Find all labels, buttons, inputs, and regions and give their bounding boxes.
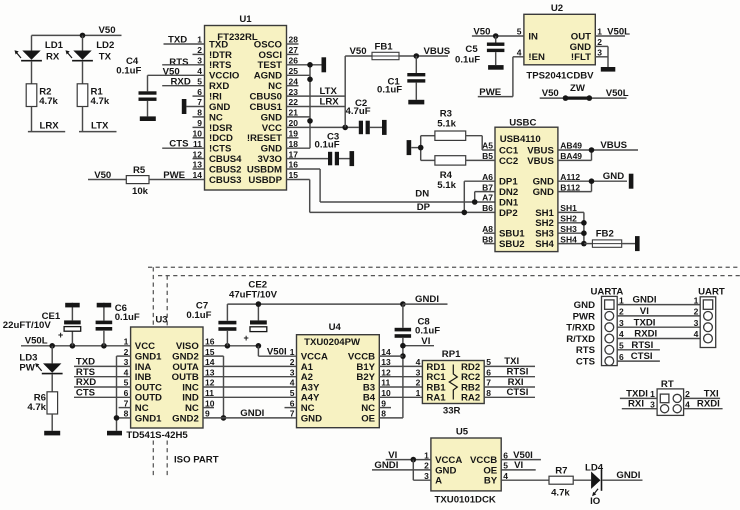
svg-text:5: 5	[503, 461, 508, 471]
junction	[581, 241, 587, 247]
svg-text:!RTS: !RTS	[209, 60, 232, 71]
svg-text:CBUS0: CBUS0	[249, 92, 282, 103]
wire B3 to RP1	[379, 386, 422, 388]
node V50I (U5 VCCB)	[501, 459, 541, 461]
LED LD1	[22, 51, 40, 60]
svg-text:10: 10	[193, 129, 203, 139]
node TXI (RP1 RD2)	[484, 365, 535, 367]
svg-text:B112: B112	[560, 182, 580, 192]
svg-text:RT: RT	[661, 379, 674, 390]
svg-text:3V3O: 3V3O	[257, 154, 282, 165]
svg-text:1: 1	[416, 388, 421, 398]
svg-text:USB4110: USB4110	[500, 134, 541, 145]
svg-text:4: 4	[517, 48, 522, 58]
svg-text:LRX: LRX	[320, 96, 340, 107]
wire	[369, 126, 382, 128]
svg-text:USBDM: USBDM	[247, 164, 282, 175]
svg-text:PWE: PWE	[163, 170, 185, 181]
svg-text:SH3: SH3	[560, 224, 577, 234]
UART pin 3 pad	[704, 323, 713, 332]
svg-text:1: 1	[290, 347, 295, 357]
RP1 resistor zigzag symbol	[449, 365, 457, 400]
svg-text:3: 3	[124, 357, 129, 367]
RT pin 4 pad	[673, 405, 681, 413]
svg-text:21: 21	[289, 108, 299, 118]
svg-text:12: 12	[205, 378, 215, 388]
svg-text:2: 2	[124, 347, 129, 357]
wire U3 GND2 bus	[203, 355, 224, 357]
svg-text:VBUS: VBUS	[527, 145, 554, 156]
svg-text:20: 20	[289, 118, 299, 128]
svg-text:VBUS: VBUS	[424, 46, 451, 57]
svg-text:IO: IO	[590, 496, 601, 507]
svg-text:6: 6	[486, 367, 491, 377]
wire R3/R4 vertical	[420, 136, 422, 161]
junction	[581, 230, 587, 236]
svg-text:!FLT: !FLT	[571, 52, 591, 63]
svg-text:7: 7	[486, 378, 491, 388]
svg-text:5: 5	[517, 27, 522, 37]
svg-text:!RI: !RI	[209, 92, 222, 103]
node GND (USBC right)	[558, 180, 627, 182]
svg-text:4.7k: 4.7k	[551, 487, 570, 498]
svg-text:GND: GND	[533, 187, 554, 198]
svg-text:TXDI: TXDI	[626, 388, 648, 399]
svg-text:13: 13	[205, 367, 215, 377]
svg-text:R7: R7	[555, 465, 567, 476]
ground (below C1)	[408, 100, 424, 105]
svg-text:SH3: SH3	[535, 229, 554, 240]
wire pin27 stub	[287, 53, 299, 55]
svg-text:VI: VI	[421, 336, 430, 347]
svg-text:2: 2	[597, 37, 602, 47]
wire	[495, 52, 497, 65]
ground (above C6)	[97, 303, 112, 308]
wire pin8 stub	[193, 116, 205, 118]
svg-text:22uFT/10V: 22uFT/10V	[3, 320, 52, 331]
wire OE to VI	[379, 417, 403, 419]
wire DP1 link	[464, 180, 495, 182]
wire	[31, 61, 33, 84]
svg-text:9: 9	[381, 398, 386, 408]
capacitor C1 0.1uF	[407, 73, 425, 76]
svg-text:2: 2	[416, 378, 421, 388]
svg-text:LTX: LTX	[91, 121, 109, 132]
svg-text:5: 5	[197, 76, 202, 86]
svg-text:13: 13	[193, 160, 203, 170]
buffer U5 TXU0101DCK box	[431, 438, 501, 491]
svg-text:5: 5	[124, 378, 129, 388]
node TXI (RT pin 2)	[684, 397, 721, 399]
junction	[418, 145, 424, 151]
svg-text:0.1uF: 0.1uF	[115, 312, 140, 323]
node RXDI (UARTA 4 to UART 4)	[617, 338, 700, 340]
node TXDI (RT pin 1)	[620, 397, 657, 399]
svg-text:!EN: !EN	[528, 52, 545, 63]
ground (below C4)	[140, 116, 156, 121]
svg-text:USBDP: USBDP	[248, 175, 282, 186]
junction	[493, 33, 499, 39]
svg-text:OE: OE	[361, 413, 375, 424]
svg-text:8: 8	[197, 108, 202, 118]
svg-text:14: 14	[205, 357, 215, 367]
wire GND pin21 to bus	[287, 116, 311, 118]
svg-text:19: 19	[289, 129, 299, 139]
svg-text:VCCIO: VCCIO	[209, 71, 240, 82]
svg-text:SBU1: SBU1	[499, 229, 525, 240]
svg-text:33R: 33R	[443, 406, 461, 417]
svg-text:0.1uF: 0.1uF	[377, 85, 402, 96]
wire	[226, 304, 228, 321]
node GNDI (UARTA 1 to UART 1)	[617, 304, 700, 306]
wire U3 pin10 stub	[203, 407, 214, 409]
svg-text:V50I: V50I	[267, 346, 287, 357]
wire	[147, 101, 149, 117]
junction	[307, 77, 313, 83]
wire GNDI rail	[227, 303, 403, 305]
svg-text:4.7uF: 4.7uF	[346, 106, 371, 117]
wire	[82, 35, 84, 50]
svg-text:7: 7	[290, 409, 295, 419]
svg-text:IN: IN	[528, 31, 538, 42]
wire VISO row	[203, 345, 258, 347]
wire SBU2 stub	[484, 243, 495, 245]
svg-text:SH1: SH1	[560, 203, 577, 213]
node RXI (RT pin 3)	[622, 408, 657, 410]
svg-text:1: 1	[694, 295, 699, 305]
UART pin 1 pad	[703, 300, 712, 309]
svg-text:A8: A8	[482, 224, 493, 234]
wire pin19 stub	[287, 137, 299, 139]
svg-text:24: 24	[289, 76, 299, 86]
svg-text:!DTR: !DTR	[209, 50, 232, 61]
wire U5 BY out	[501, 479, 549, 481]
node CTSI (UARTA 6)	[617, 360, 660, 362]
svg-text:V50L: V50L	[606, 88, 629, 99]
junction	[70, 343, 76, 349]
wire C4 drop	[147, 75, 149, 91]
wire	[71, 303, 73, 321]
svg-text:18: 18	[289, 139, 299, 149]
wire dashed isolation boundary inner	[158, 275, 740, 277]
svg-text:6: 6	[503, 450, 508, 460]
svg-text:OSCO: OSCO	[254, 39, 283, 50]
junction	[400, 343, 406, 349]
node GNDI (after LD4)	[602, 479, 642, 481]
wire	[495, 36, 497, 43]
svg-text:GND: GND	[603, 171, 624, 182]
svg-text:DP2: DP2	[499, 208, 518, 219]
junction	[581, 220, 587, 226]
wire	[415, 56, 417, 73]
resistor network RP1 33R box	[422, 361, 484, 404]
svg-text:13: 13	[381, 357, 391, 367]
svg-text:17: 17	[289, 149, 299, 159]
svg-text:23: 23	[289, 87, 299, 97]
UART pin 2 pad	[704, 312, 713, 321]
svg-text:GND: GND	[570, 42, 591, 53]
node VBUS (USBC right)	[558, 149, 638, 151]
wire B4 to RP1	[379, 396, 422, 398]
svg-text:2: 2	[694, 307, 699, 317]
svg-text:UART: UART	[698, 287, 725, 298]
wire	[51, 414, 53, 431]
svg-text:LTX: LTX	[320, 86, 338, 97]
svg-text:CBUS2: CBUS2	[209, 164, 242, 175]
svg-text:ZW: ZW	[570, 83, 586, 94]
svg-text:1: 1	[124, 337, 129, 347]
ground (below R6)	[44, 431, 60, 436]
svg-text:15: 15	[205, 347, 215, 357]
node VI (net label)	[403, 345, 434, 347]
svg-text:SH4: SH4	[535, 239, 554, 250]
wire	[402, 304, 404, 328]
svg-text:SH2: SH2	[560, 214, 577, 224]
svg-text:A5: A5	[482, 141, 493, 151]
svg-text:0.1uF: 0.1uF	[186, 310, 211, 321]
svg-text:AGND: AGND	[254, 71, 282, 82]
svg-text:14: 14	[381, 347, 391, 357]
wire	[103, 303, 105, 321]
svg-text:6: 6	[290, 398, 295, 408]
svg-text:7: 7	[124, 398, 129, 408]
wire OUTA to U4 A1	[203, 365, 297, 367]
node VI (U5 OE)	[501, 469, 536, 471]
svg-text:USBC: USBC	[509, 117, 536, 128]
wire	[82, 107, 84, 132]
svg-text:VI: VI	[514, 460, 523, 471]
wire	[31, 35, 33, 50]
svg-text:TPS2041CDBV: TPS2041CDBV	[526, 71, 594, 82]
svg-text:V50L: V50L	[25, 336, 48, 347]
svg-text:OUT: OUT	[571, 31, 591, 42]
wire INC to U4 A3Y	[203, 386, 297, 388]
wire	[257, 304, 259, 320]
wire U3 pin7 stub	[119, 407, 131, 409]
junction	[307, 62, 313, 68]
junction	[101, 343, 107, 349]
wire SBU1 stub	[484, 232, 495, 234]
wire VI to A	[412, 460, 414, 481]
svg-text:14: 14	[193, 170, 203, 180]
svg-text:A7: A7	[482, 193, 493, 203]
svg-text:TXD: TXD	[209, 39, 228, 50]
op-amp U1 FT232RL box	[205, 26, 287, 191]
capacitor C2 4.7uF	[359, 121, 363, 135]
ground (after FB2)	[635, 236, 640, 251]
junction	[307, 118, 313, 124]
junction	[256, 301, 262, 307]
svg-text:SH4: SH4	[560, 234, 577, 244]
svg-text:TXDI: TXDI	[634, 317, 656, 328]
svg-text:27: 27	[289, 45, 299, 55]
svg-text:8: 8	[381, 409, 386, 419]
svg-text:2: 2	[619, 307, 624, 317]
svg-text:RXD: RXD	[209, 81, 229, 92]
svg-text:BA49: BA49	[560, 151, 582, 161]
svg-text:3: 3	[197, 56, 202, 66]
junction	[411, 457, 417, 463]
junction	[342, 125, 348, 131]
wire B1Y to RP1	[379, 365, 422, 367]
wire U2 GND pin2	[595, 45, 608, 47]
UARTA pin 2 pad	[605, 312, 614, 321]
svg-text:0.1uF: 0.1uF	[415, 326, 440, 337]
regulator U2 TPS2041CDBV box	[524, 14, 595, 65]
wire AGND pin25	[287, 74, 311, 76]
wire	[339, 158, 350, 160]
svg-text:LRX: LRX	[40, 121, 60, 132]
wire	[186, 106, 204, 108]
node CTSI (RP1 RA2)	[484, 396, 535, 398]
svg-text:DP1: DP1	[499, 177, 518, 188]
svg-text:11: 11	[381, 378, 390, 388]
svg-text:12: 12	[193, 149, 203, 159]
wire USBDP pin15 to DP	[287, 179, 310, 181]
junction	[400, 301, 406, 307]
svg-text:LD2: LD2	[96, 40, 114, 51]
svg-text:RTS: RTS	[576, 345, 596, 356]
svg-text:+: +	[58, 330, 63, 340]
svg-text:B5: B5	[482, 151, 493, 161]
svg-text:U5: U5	[456, 426, 469, 437]
svg-text:RA2: RA2	[461, 393, 480, 404]
wire pin6 stub	[193, 95, 205, 97]
svg-text:26: 26	[289, 56, 299, 66]
svg-text:10: 10	[381, 388, 391, 398]
svg-text:6: 6	[619, 352, 624, 362]
svg-text:B6: B6	[482, 203, 493, 213]
svg-text:U3: U3	[155, 315, 167, 326]
svg-text:16: 16	[205, 337, 215, 347]
svg-text:11: 11	[193, 139, 202, 149]
svg-text:1: 1	[197, 35, 202, 45]
node RXI (RP1 RB2)	[484, 386, 535, 388]
svg-text:SH2: SH2	[535, 218, 554, 229]
gnd bus vertical	[309, 65, 311, 148]
svg-text:VBUS: VBUS	[527, 156, 554, 167]
node GNDI (rail label)	[403, 303, 448, 305]
svg-text:V50L: V50L	[607, 26, 630, 37]
svg-text:28: 28	[289, 35, 299, 45]
wire pin10 stub	[193, 137, 205, 139]
svg-text:AB49: AB49	[560, 141, 582, 151]
svg-text:0.1uF: 0.1uF	[315, 139, 340, 150]
wire OUTB to U4 A2	[203, 376, 297, 378]
svg-text:TXU0101DCK: TXU0101DCK	[435, 494, 496, 505]
ground (after C3)	[350, 151, 355, 166]
svg-text:4: 4	[290, 378, 295, 388]
svg-text:TD541S-42H5: TD541S-42H5	[126, 430, 188, 441]
junction	[462, 210, 468, 216]
capacitor C4	[139, 91, 157, 94]
svg-text:A6: A6	[482, 172, 493, 182]
wire pin2 stub	[193, 53, 205, 55]
wire	[51, 374, 53, 392]
junction	[49, 343, 55, 349]
junction	[400, 353, 406, 359]
wire U2 !FLT stub	[595, 56, 608, 58]
svg-text:2: 2	[424, 461, 429, 471]
svg-text:0.1uF: 0.1uF	[116, 66, 141, 77]
svg-text:22: 22	[289, 97, 299, 107]
svg-text:7: 7	[197, 97, 202, 107]
wire pin12 stub	[193, 158, 205, 160]
wire VCCB to VI	[379, 355, 403, 357]
svg-text:!DSR: !DSR	[209, 123, 233, 134]
ferrite bead FB2	[584, 243, 593, 245]
svg-text:R5: R5	[133, 165, 146, 176]
svg-text:GND: GND	[261, 112, 282, 123]
svg-text:GND1: GND1	[135, 413, 162, 424]
svg-text:U4: U4	[329, 322, 342, 333]
wire SH bus	[558, 211, 584, 213]
svg-text:5: 5	[486, 357, 491, 367]
svg-text:VCC: VCC	[262, 123, 282, 134]
svg-text:10k: 10k	[132, 186, 149, 197]
RT pin 1 pad	[660, 394, 669, 403]
svg-text:8: 8	[486, 388, 491, 398]
UARTA pin 3 pad	[605, 323, 614, 332]
svg-text:NC: NC	[268, 81, 282, 92]
wire VCC pin20 row	[287, 126, 359, 128]
RT pin 3 pad	[661, 405, 669, 413]
svg-text:VI: VI	[640, 306, 649, 317]
svg-text:RX: RX	[46, 51, 60, 62]
svg-text:1: 1	[424, 450, 429, 460]
svg-text:2: 2	[290, 357, 295, 367]
svg-text:RA1: RA1	[426, 393, 446, 404]
ground (R3/R4)	[407, 140, 412, 155]
svg-text:A: A	[435, 476, 442, 487]
svg-text:!DCD: !DCD	[209, 133, 233, 144]
svg-text:GND2: GND2	[172, 413, 199, 424]
svg-text:CTS: CTS	[576, 357, 596, 368]
svg-text:PWR: PWR	[573, 311, 595, 322]
svg-text:U2: U2	[551, 3, 563, 14]
wire 3V3O pin17 row	[287, 158, 329, 160]
svg-text:4.7k: 4.7k	[27, 402, 46, 413]
svg-text:LD1: LD1	[45, 40, 64, 51]
svg-text:4.7k: 4.7k	[39, 96, 58, 107]
svg-text:3: 3	[619, 318, 624, 328]
svg-text:DN1: DN1	[499, 197, 519, 208]
svg-text:CC1: CC1	[499, 145, 519, 156]
svg-text:GNDI: GNDI	[240, 408, 264, 419]
ground (U1 pin 7)	[182, 99, 187, 114]
connector USBC USB4110 box	[495, 127, 558, 251]
resistor R6 4.7k	[47, 392, 58, 414]
resistor R1	[77, 84, 88, 107]
svg-text:CTSI: CTSI	[631, 351, 653, 362]
svg-text:SBU2: SBU2	[499, 239, 525, 250]
svg-text:FB1: FB1	[375, 42, 394, 53]
node V50L (U2 OUT)	[595, 35, 625, 37]
svg-text:GND: GND	[261, 144, 282, 155]
junction	[114, 415, 120, 421]
junction	[225, 343, 231, 349]
wire dashed isolation boundary outer	[148, 266, 740, 268]
svg-text:TXI: TXI	[704, 388, 719, 399]
svg-text:1: 1	[650, 389, 655, 399]
svg-text:11: 11	[205, 388, 214, 398]
svg-text:V50: V50	[99, 25, 116, 36]
UARTA pin 5 pad	[605, 345, 614, 354]
svg-text:RTSI: RTSI	[631, 340, 653, 351]
svg-text:U1: U1	[239, 14, 252, 25]
svg-text:4: 4	[619, 329, 624, 339]
svg-text:3: 3	[424, 471, 429, 481]
